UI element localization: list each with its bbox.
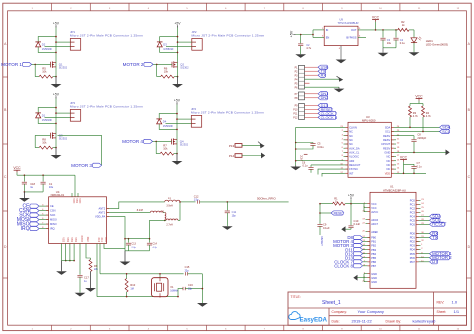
svg-text:X1: X1 <box>170 285 174 289</box>
junction dots (motor block 4) <box>176 113 178 115</box>
svg-text:3.9nH: 3.9nH <box>166 205 173 208</box>
svg-text:VCC: VCC <box>371 202 377 206</box>
diode D3 1N5819F <box>157 41 163 43</box>
wire GND pins tie <box>363 274 365 282</box>
wire C4 to C3 ground join <box>383 47 396 49</box>
pin NC (U3 right) <box>391 164 396 166</box>
pin CLKIN (U3 left) <box>344 126 349 128</box>
wire P8 to DN2 flag <box>305 97 319 99</box>
capacitor C3 10u <box>382 30 384 38</box>
svg-text:+5V: +5V <box>290 30 294 37</box>
svg-text:REGOUT: REGOUT <box>349 163 361 167</box>
pin VCC 6 (U1 left) <box>366 207 371 209</box>
svg-text:AREF: AREF <box>371 230 378 234</box>
svg-text:SI2302: SI2302 <box>180 143 189 147</box>
transistor Q2 SI2302 N-MOSFET <box>171 62 173 68</box>
pin NC (U3 left) <box>344 143 349 145</box>
ground (crystal caps) <box>197 303 208 307</box>
svg-text:CSN: CSN <box>50 209 56 213</box>
svg-text:MOSI: MOSI <box>50 218 57 222</box>
LED LED1 LED-Green(0603) <box>411 38 417 43</box>
svg-text:PC0: PC0 <box>410 198 416 202</box>
svg-text:TPS7A1330BUR: TPS7A1330BUR <box>338 21 359 25</box>
svg-text:1N5819F: 1N5819F <box>42 48 53 51</box>
svg-text:P12: P12 <box>293 117 298 120</box>
pin SCL (U3 right) <box>391 130 396 132</box>
junction dot ground join <box>24 191 26 193</box>
pin PD4 2 (U1 right) <box>416 249 421 251</box>
capacitor C18 1u <box>23 175 25 181</box>
net flag D7 (U1 right) <box>421 261 430 263</box>
svg-text:RESET: RESET <box>320 237 324 247</box>
net flag CLOCK 8 <box>318 115 336 119</box>
wire gate to MOTOR 3 flag run <box>58 135 102 165</box>
svg-text:PD7: PD7 <box>410 260 416 264</box>
svg-text:PB2: PB2 <box>371 244 376 248</box>
svg-text:D7: D7 <box>432 259 438 264</box>
svg-text:P13: P13 <box>229 144 235 148</box>
svg-text:VCC: VCC <box>372 16 380 20</box>
svg-text:VDD: VDD <box>104 237 106 242</box>
svg-text:SCK: SCK <box>50 213 56 217</box>
svg-text:PC5: PC5 <box>410 218 416 222</box>
wire VDD_PA drop <box>111 217 125 239</box>
pin MISO (U4 left) <box>44 223 49 225</box>
resistor R8 10k gate pulldown <box>35 147 39 149</box>
svg-text:PD2: PD2 <box>410 240 416 244</box>
wire ANT2 to top row <box>111 202 165 209</box>
wire VCC to VDD row <box>403 162 405 174</box>
svg-text:1N5819F: 1N5819F <box>42 119 53 122</box>
wire ANT1 to 8.2nH <box>111 212 150 214</box>
svg-text:PB7: PB7 <box>371 264 376 268</box>
EasyEDA logo <box>289 312 300 320</box>
svg-text:ANT2: ANT2 <box>99 207 106 211</box>
svg-text:PD5: PD5 <box>410 252 416 256</box>
svg-text:+5V: +5V <box>53 22 60 26</box>
svg-text:ADC6: ADC6 <box>371 218 378 222</box>
wire +5V to VCC pins <box>350 200 352 204</box>
capacitor C17 1u <box>77 274 82 276</box>
svg-text:D4: D4 <box>163 120 167 124</box>
pin PD1 31 (U1 right) <box>416 237 421 239</box>
wire JP1 pin1 to +5V rail <box>56 41 70 43</box>
diode D1 1N5819F <box>35 112 41 114</box>
pin PC6 29 (U1 right) <box>416 223 421 225</box>
wire P3 to RX flag <box>305 74 319 76</box>
inductor 2.7nH <box>166 219 178 220</box>
svg-text:10k: 10k <box>163 147 168 151</box>
wire U3 SCL to flag <box>396 130 440 132</box>
svg-text:FSYNC: FSYNC <box>349 167 358 171</box>
svg-text:CLOCK 8: CLOCK 8 <box>321 116 337 120</box>
svg-text:NRF24L01: NRF24L01 <box>51 193 65 197</box>
svg-text:NC: NC <box>386 163 390 167</box>
svg-text:+5V: +5V <box>348 194 355 198</box>
capacitor C13 2.2p <box>128 239 130 243</box>
wire +5V rail (motor block 4) <box>176 105 178 154</box>
junction dot C11 tap <box>227 201 229 203</box>
pin NC (U3 left) <box>344 139 349 141</box>
junction dot AD0/bus <box>295 160 297 162</box>
pin VCC 4 (U1 left) <box>366 203 371 205</box>
wire U3 GND row to right ground <box>396 151 446 153</box>
wire P13 run <box>242 144 261 146</box>
svg-text:22p: 22p <box>185 269 190 272</box>
IC U1 ATMEGA328P-AU body <box>370 192 416 288</box>
svg-text:+5V: +5V <box>53 93 60 97</box>
svg-text:PC6: PC6 <box>410 222 416 226</box>
svg-text:C13: C13 <box>132 243 137 246</box>
svg-text:1.5p: 1.5p <box>194 198 199 201</box>
ground (C18/C1) <box>23 192 25 198</box>
wire gate (motor block 4) <box>153 140 172 142</box>
wire gate pulldown drop (motor block 1) <box>34 64 36 76</box>
svg-text:+5V: +5V <box>174 22 181 26</box>
svg-text:10u: 10u <box>387 41 392 45</box>
capacitor C16 22p <box>182 287 184 290</box>
svg-text:VCC: VCC <box>371 206 377 210</box>
svg-text:RESV: RESV <box>383 134 390 138</box>
wire U9 OUT rail <box>358 29 398 31</box>
wire P6 to ground <box>305 86 340 88</box>
svg-text:Micro JST 2-Pin Male PCB Conne: Micro JST 2-Pin Male PCB Connector 1.25m… <box>70 105 143 109</box>
pin MOSI (U4 left) <box>44 219 49 221</box>
junction dot +5V/VCC <box>350 203 352 205</box>
wire +5V to U9 input node <box>296 34 314 36</box>
pin FSYNC (U3 left) <box>344 168 349 170</box>
wire +5V rail (motor block 2) <box>177 28 179 77</box>
pin stub U9 GND pad <box>340 46 342 60</box>
svg-text:VSS: VSS <box>66 237 68 242</box>
pin AUX_DA (U3 left) <box>344 147 349 149</box>
pin AUX_CL (U3 left) <box>344 151 349 153</box>
svg-text:C17: C17 <box>84 275 89 279</box>
pin PC5 28 (U1 right) <box>416 219 421 221</box>
net flag DN2 <box>318 96 328 100</box>
svg-text:10p: 10p <box>232 215 237 218</box>
pin PB2 14 (U1 left) <box>366 245 371 247</box>
wire JP3 pin2 to drain <box>45 117 71 119</box>
capacitor C15 22p <box>184 272 186 275</box>
svg-text:MISO: MISO <box>50 222 57 226</box>
resistor R5 10k gate pulldown <box>35 76 39 78</box>
ground (motor block 3) <box>55 148 57 155</box>
svg-text:ATMEGA328P-AU: ATMEGA328P-AU <box>383 188 406 192</box>
pin PD2 32 (U1 right) <box>416 241 421 243</box>
inductor L1 3.9nH <box>165 200 180 202</box>
wire U3 CLKIN to left bus <box>296 126 344 128</box>
wire C13/C14 top tie <box>125 238 150 240</box>
ground (C3/C4) <box>382 48 384 53</box>
svg-text:SI2302: SI2302 <box>180 66 189 70</box>
svg-text:R10: R10 <box>130 283 135 287</box>
svg-text:LED-Green(0603): LED-Green(0603) <box>426 43 448 47</box>
svg-text:8.2nH: 8.2nH <box>137 209 144 212</box>
pin PB7 8 (U1 left) <box>366 265 371 267</box>
ground (U9) <box>336 60 347 64</box>
svg-text:OUT: OUT <box>351 28 357 32</box>
svg-text:D3: D3 <box>163 43 167 47</box>
pin RESV (U3 right) <box>391 139 396 141</box>
junction dot gate node (motor block 4) <box>155 141 157 143</box>
ground (motor block 1) <box>55 77 57 84</box>
svg-text:ANT1: ANT1 <box>99 211 106 215</box>
svg-text:VSS: VSS <box>62 237 64 242</box>
svg-text:NC: NC <box>349 130 353 134</box>
junction dots (motor block 2) <box>177 36 179 38</box>
connector JP3 Micro JST 2-Pin <box>70 110 80 122</box>
wire gate pulldown drop (motor block 4) <box>155 141 157 153</box>
svg-text:0.1u: 0.1u <box>400 41 406 45</box>
pin PB3 15 (U1 left) <box>366 249 371 251</box>
svg-text:P14: P14 <box>229 154 235 158</box>
pin PB4 16 (U1 left) <box>366 253 371 255</box>
pin REGOUT (U3 left) <box>344 164 349 166</box>
svg-text:MOTOR 3: MOTOR 3 <box>71 163 92 168</box>
svg-text:RESV: RESV <box>383 146 390 150</box>
wire U3 SDA to flag <box>396 126 440 128</box>
ground (U4 VSS) <box>61 261 63 272</box>
pin header P7-P8 body <box>299 92 305 100</box>
pin VLOGIC (U3 left) <box>344 156 349 158</box>
pin CSN (U4 left) <box>44 210 49 212</box>
wire gate pulldown drop (motor block 3) <box>34 135 36 147</box>
svg-text:EasyEDA: EasyEDA <box>300 317 328 324</box>
svg-text:TITLE:: TITLE: <box>291 295 301 299</box>
resistor R9 22k <box>90 258 92 260</box>
svg-text:AUX_CL: AUX_CL <box>349 150 360 154</box>
ground (P14, pointing right) <box>261 153 265 159</box>
wire JP1 pin2 to drain <box>45 46 71 48</box>
svg-text:50Ohm_RFIO: 50Ohm_RFIO <box>257 197 276 201</box>
resistor R7 10k gate pulldown <box>156 153 160 155</box>
junction dots (motor block 1) <box>55 36 57 38</box>
svg-text:1N5819F: 1N5819F <box>163 125 174 128</box>
ground (P6) <box>338 87 340 88</box>
net flag TX (U1 right) <box>421 237 430 239</box>
pin GND 21 (U1 left) <box>366 281 371 283</box>
svg-text:AVCC: AVCC <box>371 210 378 214</box>
svg-text:IRQ: IRQ <box>21 226 30 232</box>
wire C13/C14 bottom tie <box>125 250 150 252</box>
ground (P13, angled) <box>260 143 265 148</box>
svg-text:IRQ: IRQ <box>50 227 55 231</box>
svg-text:4.7k: 4.7k <box>413 114 419 118</box>
svg-text:PD3: PD3 <box>410 244 416 248</box>
pin NC (U3 left) <box>344 135 349 137</box>
wire +5V rail to C10 <box>350 204 352 226</box>
svg-text:VSS: VSS <box>70 237 72 242</box>
net flag RX (U1 right) <box>421 232 430 234</box>
svg-text:2.7nH: 2.7nH <box>166 223 173 226</box>
ground (C10, pointing left) <box>341 226 345 232</box>
svg-text:1.0: 1.0 <box>452 299 458 304</box>
net flag SDA (U1 right) <box>421 215 430 217</box>
pin AVCC 18 (U1 left) <box>366 211 371 213</box>
svg-text:GND: GND <box>371 272 377 276</box>
ground (LED1) <box>409 52 420 56</box>
svg-text:PC3: PC3 <box>410 210 416 214</box>
wire crystal top rail <box>100 273 184 275</box>
net flag RESET (U1) <box>331 211 343 215</box>
svg-text:VCC: VCC <box>300 154 304 161</box>
junction dots (motor block 3) <box>55 107 57 109</box>
pin PB5 17 (U1 left) <box>366 257 371 259</box>
svg-text:0.01u: 0.01u <box>317 145 324 149</box>
net flag USB <box>318 65 328 69</box>
wire R2 to LED1 <box>409 29 414 31</box>
svg-text:1M: 1M <box>130 288 133 291</box>
pin GND 3 (U1 left) <box>366 273 371 275</box>
title block dividers <box>288 307 467 309</box>
svg-text:1/1: 1/1 <box>454 309 460 314</box>
svg-text:PB4: PB4 <box>371 252 376 256</box>
svg-text:4.7u: 4.7u <box>306 46 312 50</box>
svg-text:RESET: RESET <box>432 222 447 227</box>
svg-text:Sheet:: Sheet: <box>437 310 447 314</box>
net flag RESET (header) <box>318 107 332 111</box>
capacitor C14 4.7p <box>149 239 151 243</box>
svg-text:10k: 10k <box>42 141 47 145</box>
svg-text:C14: C14 <box>153 243 158 246</box>
wire U3 INT stub <box>322 173 344 176</box>
junction dot C7/VDD <box>413 172 415 174</box>
svg-text:MOTOR 1: MOTOR 1 <box>1 62 22 67</box>
wire JP3 pin1 to +5V rail <box>56 112 70 114</box>
resistor R4 4.7k (SCL pull-up) <box>422 104 424 107</box>
pin VDD_PA (U4 right) <box>107 216 112 218</box>
wire crystal ground drop <box>201 274 203 303</box>
connector JP1 Micro JST 2-Pin <box>70 39 80 51</box>
junction dot C3 tap <box>382 29 384 31</box>
svg-text:GND: GND <box>371 276 377 280</box>
pin NC (U3 right) <box>391 160 396 162</box>
junction dot C1 tap <box>42 174 44 176</box>
title block outline <box>288 292 467 325</box>
svg-text:PD6: PD6 <box>410 256 416 260</box>
capacitor C6 0.1u <box>310 165 312 167</box>
wire C18/C1 ground join <box>24 191 43 193</box>
svg-text:Date:: Date: <box>332 320 340 324</box>
wire P11 to CLOCK 7 flag <box>305 112 319 114</box>
wire crystal bottom rail <box>97 296 178 298</box>
svg-text:PB6: PB6 <box>371 260 376 264</box>
pin PB6 7 (U1 left) <box>366 261 371 263</box>
pin AD0 (U3 left) <box>344 160 349 162</box>
svg-text:IREF: IREF <box>86 237 88 243</box>
junction dot gate node (motor block 2) <box>156 64 158 66</box>
capacitor C8 2200pF <box>413 136 415 140</box>
pin ADC6 19 (U1 left) <box>366 219 371 221</box>
svg-text:D1: D1 <box>42 114 46 118</box>
wire VCC to pullup tee <box>418 101 420 104</box>
svg-text:P11: P11 <box>293 113 298 116</box>
inductor 8.2nH <box>150 211 163 213</box>
junction dot VDD/VCC <box>403 172 405 174</box>
pin stubs U4 top <box>71 193 73 197</box>
wire U3 REGOUT to C6 <box>311 164 344 166</box>
wire IN/EN fork <box>312 30 314 38</box>
wire U3 VDD row <box>396 172 426 174</box>
junction dot fork <box>312 34 314 36</box>
wire gate (motor block 1) <box>32 63 51 65</box>
wire JP4 pin2 to drain <box>166 123 192 125</box>
pin stub P5 <box>305 82 310 84</box>
svg-text:DN2: DN2 <box>321 96 329 100</box>
ground (U3 left bus) <box>295 166 297 167</box>
pin CPOUT (U3 right) <box>391 143 396 145</box>
svg-text:PD4: PD4 <box>410 248 416 252</box>
svg-text:TX: TX <box>432 235 438 240</box>
svg-text:RESV: RESV <box>383 138 390 142</box>
capacitor C10 0.1uF <box>348 225 353 227</box>
wire VSS tie <box>62 260 75 262</box>
svg-text:Micro JST 2-Pin Male PCB Conne: Micro JST 2-Pin Male PCB Connector 1.25m… <box>192 34 265 38</box>
svg-text:1N5819F: 1N5819F <box>163 48 174 51</box>
capacitor C11 10p <box>226 202 228 211</box>
svg-text:IN: IN <box>326 28 329 32</box>
svg-text:MOTOR 2: MOTOR 2 <box>123 62 144 67</box>
pin NC (U3 left) <box>344 130 349 132</box>
resistor R10 1M <box>126 274 128 279</box>
pin PC3 26 (U1 right) <box>416 211 421 213</box>
svg-text:RX: RX <box>321 74 327 78</box>
diode D2 1N5819F <box>35 41 41 43</box>
junction dot reset flag tap <box>319 212 321 214</box>
junction dot C5 branch <box>295 142 297 144</box>
svg-text:VLOGIC: VLOGIC <box>349 155 359 159</box>
wire U3 left ground bus <box>295 127 297 165</box>
svg-text:P10: P10 <box>293 109 298 112</box>
IC U4 NRF24L01 body <box>49 197 107 244</box>
pin PD0 30 (U1 right) <box>416 232 421 234</box>
pin VDD (U3 right) <box>391 172 396 174</box>
svg-text:PB1: PB1 <box>371 240 376 244</box>
wire U3 AD0 to left bus <box>296 160 344 162</box>
net flag RESET (U1 right) <box>421 223 430 225</box>
wire P10 to RESET flag <box>305 108 319 110</box>
junction dot R4/SCL <box>422 131 424 133</box>
svg-text:INT: INT <box>349 171 354 175</box>
wire L2 node <box>164 220 166 222</box>
svg-text:VDD: VDD <box>385 171 391 175</box>
pin stub U9 BYPASS <box>358 37 366 39</box>
pin RESV (U3 right) <box>391 147 396 149</box>
svg-text:0.1u: 0.1u <box>302 163 308 167</box>
svg-text:CPOUT: CPOUT <box>381 142 390 146</box>
svg-text:PD0: PD0 <box>410 232 416 236</box>
regulator U9 TPS7A1330BUR body <box>324 26 358 45</box>
inductor L2 2.7nH (shunt) <box>165 213 166 221</box>
wire U3 CPOUT to C8 <box>396 135 414 137</box>
wire L2 bottom to C14 <box>150 220 165 238</box>
junction dot gate node (motor block 1) <box>34 64 36 66</box>
svg-text:CLKIN: CLKIN <box>349 125 357 129</box>
ground (antenna caps) <box>120 262 131 266</box>
pin PC2 25 (U1 right) <box>416 207 421 209</box>
junction dot C18 tap <box>24 174 26 176</box>
net flag CLOCK 7 <box>318 111 336 115</box>
pin header P1-P6 body <box>299 65 305 89</box>
pin stub U4 IREF <box>86 244 91 259</box>
svg-text:VSS: VSS <box>75 198 77 203</box>
svg-text:PD1: PD1 <box>410 236 416 240</box>
ground (P4, angled) <box>339 77 344 82</box>
svg-text:PB3: PB3 <box>371 248 376 252</box>
svg-text:NC: NC <box>349 134 353 138</box>
wire LED1 cathode to ground <box>413 43 415 53</box>
